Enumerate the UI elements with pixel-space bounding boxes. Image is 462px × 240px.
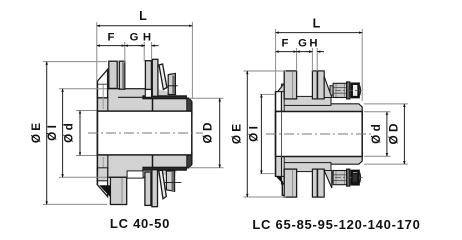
collar column bottom gray extension [97,168,107,181]
svg-text:F: F [108,32,115,44]
right collar column bottom gray extension [276,157,282,177]
right fig left face line [275,91,277,176]
flange bar1b top [119,61,125,89]
flange bar2b bottom [152,170,158,207]
pocket bottom [127,171,143,178]
screw slanted top [159,64,167,90]
screw slanted bottom [159,170,167,198]
dim OD fig1 [189,98,224,167]
svg-text:Ø I: Ø I [247,126,261,142]
dim H fig2 [306,48,324,71]
flange bar2b top [152,59,158,96]
svg-text:Ø D: Ø D [387,123,401,144]
svg-text:L: L [313,16,321,30]
svg-text:H: H [143,32,151,44]
right collar bottom outer edge [281,181,283,195]
dim G fig1 [125,42,145,61]
screw head bottom [166,171,174,191]
body bottom half [97,152,191,197]
svg-text:H: H [309,38,317,50]
body bottom half right [276,152,363,197]
screw head dark strip bottom [172,172,175,190]
dim L fig2 [276,29,363,101]
dim H fig1 [138,42,159,60]
dim F fig2 [276,48,297,71]
svg-text:Ø E: Ø E [29,123,43,143]
wedge bottom [324,171,332,189]
collar top edge line [98,83,108,85]
flange bar1b dark strip top [122,62,124,88]
flange bar1a top [109,61,117,88]
left face line [96,81,98,185]
svg-text:F: F [282,38,289,50]
flange bar2a bottom [145,172,151,205]
bottom bolt dark nut block [352,173,358,182]
svg-text:L: L [139,9,147,23]
dim OI fig1 [59,89,107,178]
svg-text:Ø d: Ø d [62,123,76,143]
flange bar1 bottom [110,177,126,204]
dim L fig1 [97,22,193,98]
screw head top [168,73,175,94]
svg-text:Ø D: Ø D [201,122,215,143]
bore right [276,112,363,157]
screw head dark strip top [172,76,175,94]
dim OI fig2 [260,94,275,173]
svg-text:LC 65-85-95-120-140-170: LC 65-85-95-120-140-170 [252,217,420,232]
svg-text:G: G [298,38,307,50]
screw axis tick bottom [165,181,182,183]
svg-text:Ø d: Ø d [369,124,383,144]
svg-text:Ø E: Ø E [230,124,244,144]
dim G fig2 [297,48,313,71]
dim Od fig1 [76,111,97,156]
wedge top [324,77,332,98]
inner step line crossing bore [281,112,283,157]
screw axis tick top [168,85,178,87]
svg-text:G: G [130,32,139,44]
dim OE fig1 [43,62,107,205]
svg-text:LC 40-50: LC 40-50 [110,216,170,231]
flange bar2a top [145,61,151,90]
right collar bottom chamfer [276,176,282,182]
pocket white under bar2a top [145,89,151,97]
dim F fig1 [97,42,125,63]
recessed band bottom line top [118,96,145,98]
dim OE fig2 [244,71,287,197]
right collar bottom end edge [282,194,285,196]
collar bottom black wedge [99,185,110,197]
body top half right [276,71,363,116]
svg-text:Ø I: Ø I [45,125,59,141]
dim Od fig2 [364,112,391,157]
centerline fig1 [88,132,203,134]
centerline fig2 [266,133,374,135]
flange bar1 bottom inner line [121,178,123,203]
bore left [97,111,191,155]
body top half [97,69,191,114]
dim OD fig2 [364,104,408,164]
